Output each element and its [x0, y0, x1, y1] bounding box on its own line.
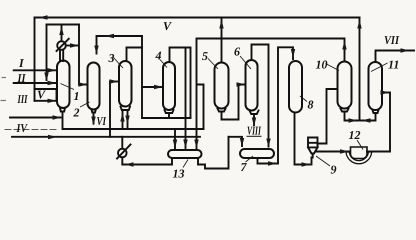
arrow vessel 3 bottoms down — [125, 116, 129, 125]
arrow vessel 10 bottoms right — [349, 118, 358, 122]
wire vessel 3 reboiler return pipe (up arrow) — [122, 110, 124, 129]
arrow center riser up — [357, 20, 361, 29]
arrow compressor to vessel2 drop — [70, 43, 79, 47]
wire vessel 4 overhead line — [170, 48, 191, 119]
drum 13 — [168, 150, 202, 158]
svg-text:VIII: VIII — [247, 124, 262, 138]
vessel column 10 — [338, 62, 352, 109]
leader 6 — [240, 56, 251, 69]
wire compressor up-branch to inner loop — [61, 26, 63, 41]
arrow vessel 2 bottoms VI down — [91, 117, 95, 126]
wire pump riser from stream IV line — [121, 137, 123, 149]
arrow compressor up into loop — [59, 26, 63, 35]
vessel column 6 — [246, 60, 258, 111]
vessel column 2 — [88, 63, 100, 110]
wire vessel 3 feed arrow line — [110, 81, 118, 83]
wire vessel 11 bottom to center riser — [361, 110, 379, 121]
wire vessel 6 overhead to drum 7 — [252, 45, 269, 147]
vessel column 1 — [57, 61, 70, 109]
arrow vessel 10 overhead up — [342, 41, 346, 50]
wire vessel 6 bottom stream VIII stub — [250, 111, 259, 126]
arrow vessel 9 outlet right — [340, 149, 349, 153]
svg-text:IV: IV — [16, 121, 28, 135]
arrow stream I — [48, 68, 57, 72]
wire vessel 1 bottoms band line across to column 5 leg — [63, 112, 204, 130]
arrow pump suction pointing left — [125, 162, 134, 166]
wire vessel 5 bottom taper and transfer to vessel 6 — [218, 85, 245, 120]
wire vessel 5 overhead riser to header V — [221, 18, 223, 63]
arrow stream V into vessel 1 — [48, 99, 57, 103]
arrow stream IV into drum 7 — [240, 138, 244, 147]
wire overhead header Q from vessel 10 — [198, 39, 345, 62]
wire vessel 9 outlet to apparatus 12 — [316, 151, 350, 153]
stream VIII underline — [247, 135, 262, 137]
arrow vessel 3 reboiler return up — [120, 113, 124, 122]
wire inner loop line top-left — [47, 24, 80, 26]
arrow header V pointing left — [39, 15, 48, 19]
svg-text:13: 13 — [173, 167, 185, 181]
wire vessel 3 bottoms down pipe — [127, 110, 129, 129]
wire vessel 10 bottom to center riser — [341, 109, 359, 121]
leader 5 — [208, 59, 218, 70]
arrow stream II — [48, 81, 57, 85]
leader 1 — [61, 84, 75, 90]
wire top recycle header V — [35, 17, 360, 19]
leader lines for numbers — [61, 56, 388, 168]
svg-text:10: 10 — [316, 58, 328, 72]
pump slash mark — [117, 145, 131, 159]
arrowheads — [39, 15, 410, 166]
arrow vessel 8 bottoms right — [302, 162, 311, 166]
arrow drum 7 outlet right — [268, 161, 277, 165]
svg-text:II: II — [17, 71, 27, 85]
svg-text:4: 4 — [155, 49, 162, 63]
wire compressor right branch — [66, 45, 78, 47]
boxed label stream V at vessel 1 — [35, 89, 57, 101]
apparatus 12 pot — [351, 147, 368, 159]
wire vessel 9 inlet from vessel 10 side draw — [318, 89, 338, 144]
wire line A collecting bottoms — [142, 117, 191, 119]
leader 12 — [357, 140, 363, 150]
arrow vessel 6 overhead into drum 7 — [266, 139, 270, 148]
leader 3 — [113, 57, 123, 68]
arrow vessel 5 overhead up — [219, 20, 223, 29]
svg-text:I: I — [18, 56, 25, 70]
wire left riser of header V down to vessel 1 — [34, 18, 36, 101]
pump circle P1 — [118, 149, 127, 158]
wire vessel 4 feed branch — [142, 86, 162, 88]
arrow into vessel 8 top — [291, 49, 295, 58]
arrow vessel 6 bottoms VIII down — [252, 118, 256, 127]
wire stream IV dash leader — [5, 129, 57, 131]
apparatus 12 saucer shell — [346, 152, 372, 164]
wire vessel 11 side draw to apparatus 12 — [367, 93, 390, 152]
svg-text:12: 12 — [349, 128, 361, 142]
wire drum 13 inlet drop c (tall from header Q) — [196, 39, 198, 150]
wire drum 13 inlet drop a — [174, 129, 176, 149]
leader 7 — [246, 156, 254, 162]
leader 9 — [316, 156, 330, 166]
drum 7 reflux — [240, 149, 274, 158]
arrow drum13 drop a — [173, 140, 177, 149]
arrow drum13 drop b — [183, 140, 187, 149]
svg-text:9: 9 — [331, 163, 337, 177]
svg-text:6: 6 — [234, 45, 240, 59]
svg-text:5: 5 — [202, 49, 208, 63]
wire stream IV long feed line — [12, 136, 200, 138]
leader 11 — [371, 63, 388, 72]
svg-text:2: 2 — [73, 106, 80, 120]
wire overhead header P into vessel 2 — [97, 36, 143, 54]
wire stream V entry into vessel 1 — [35, 100, 56, 102]
svg-text:11: 11 — [388, 58, 399, 72]
svg-text:8: 8 — [308, 98, 314, 112]
wire stream IV drop into drum 7 — [229, 137, 243, 146]
wire vessel 1 bottom nozzle — [60, 108, 65, 112]
wire stream II line — [14, 82, 56, 84]
wire right riser from columns 10/11 bottoms up to header V — [359, 18, 361, 121]
arrow into vessel 3 left — [110, 79, 119, 83]
arrow into vessel 4 left — [154, 85, 163, 89]
wire riser from bottoms line up to vessel 3 feed — [109, 82, 111, 137]
leader 4 — [160, 60, 167, 68]
wire vessel 5 left leg — [198, 85, 204, 130]
svg-text:3: 3 — [108, 51, 115, 65]
vessel column 8 — [289, 61, 302, 113]
arrow header P pointing left — [105, 34, 114, 38]
wire drum 7 outlet to riser — [258, 47, 294, 163]
wire vessel 3 overhead to header P riser — [127, 48, 143, 62]
leader 13 — [183, 160, 188, 168]
svg-text:7: 7 — [241, 160, 248, 174]
leader 8 — [300, 96, 307, 102]
arrow into vessel 2 left — [79, 82, 88, 86]
arrow stream VII right — [401, 48, 410, 52]
vessel column 5 — [215, 63, 229, 109]
arrow vessel 11 side draw right — [381, 90, 390, 94]
vessel column 4 — [163, 62, 175, 110]
arrow into vessel 6 left — [237, 82, 246, 86]
arrow drum13 drop c — [194, 140, 198, 149]
wire drum 13 transfer up to stream IV line — [198, 137, 229, 169]
compressor circle on vessel 1 overhead — [57, 41, 66, 50]
vessel column 11 — [369, 62, 383, 110]
wire vessel 4 bottom nozzle — [165, 110, 174, 118]
svg-text:V: V — [163, 19, 172, 33]
arrow into vessel 2 top — [94, 46, 98, 55]
wire vessel 1 top vapor stub to compressor — [60, 50, 63, 61]
arrow inner loop into II — [44, 73, 48, 82]
wire vessel 8 bottoms to vessel 9 — [295, 113, 312, 165]
wire pump suction from drum 13 — [122, 157, 172, 164]
wire vessel 2 bottom stream VI stub — [92, 110, 96, 124]
wire vessel 3 bottom taper — [121, 107, 131, 111]
compressor slash mark — [57, 39, 69, 51]
leader 2 — [80, 102, 90, 107]
edge artifact marks — [1, 78, 7, 101]
svg-text:III: III — [17, 92, 29, 106]
vessel 9 separator — [308, 138, 318, 158]
svg-text:VI: VI — [97, 114, 107, 128]
svg-text:1: 1 — [74, 89, 80, 103]
wire vessel 11 overhead stream VII — [376, 51, 415, 63]
wire drum 13 inlet drop b (tall from y47.5) — [185, 48, 187, 150]
wire long riser x142 (header P corner down to line A) — [141, 36, 143, 118]
arrow stream III — [53, 115, 62, 119]
wire inner loop right drop to vessel 2 feed — [79, 25, 87, 85]
arrow stream IV — [48, 135, 57, 139]
svg-text:V: V — [37, 88, 46, 102]
wire stream III line — [10, 117, 61, 119]
wire stream I line — [14, 69, 56, 71]
leader 10 — [326, 64, 340, 71]
vessel column 3 — [119, 61, 132, 107]
wire inner loop left drop to stream II line — [46, 25, 48, 81]
arrow vessel 11 bottoms left — [362, 118, 371, 122]
svg-text:VII: VII — [384, 33, 400, 47]
